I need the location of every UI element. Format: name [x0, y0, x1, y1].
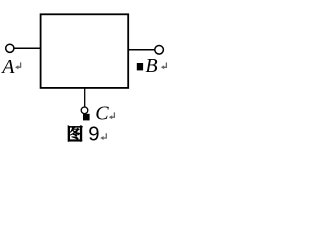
terminal C circle	[81, 107, 88, 114]
paragraph mark after A	[15, 62, 21, 69]
svg-text:C: C	[95, 102, 109, 124]
wire B	[128, 49, 155, 51]
paragraph mark after C	[109, 112, 115, 119]
svg-text:9: 9	[88, 124, 99, 146]
box (three-terminal network)	[41, 14, 129, 88]
node C square	[83, 114, 90, 121]
caption character 图	[68, 125, 83, 141]
paragraph mark after B	[161, 63, 167, 70]
svg-text:B: B	[145, 55, 157, 77]
svg-text:A: A	[0, 56, 15, 78]
terminal A circle	[6, 44, 14, 52]
terminal B circle	[155, 46, 164, 55]
wire C	[84, 88, 86, 107]
node B square	[137, 63, 143, 70]
wire A	[14, 47, 41, 49]
paragraph mark after 9	[100, 133, 106, 140]
